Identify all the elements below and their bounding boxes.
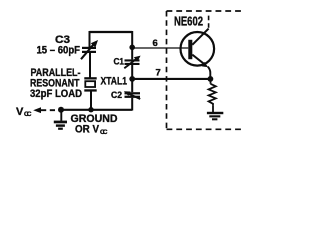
transistor Q1 circle xyxy=(181,32,215,66)
wire: ground rail horizontal xyxy=(59,109,132,111)
svg-text:V: V xyxy=(16,106,24,118)
resistor R1 zigzag xyxy=(209,84,216,106)
capacitor C1 plates (trimmer) xyxy=(125,59,140,65)
node: junction dot pin7 tap xyxy=(129,76,135,82)
ground symbol (under resistor) bars xyxy=(207,112,223,121)
crystal XTAL1 bottom electrode xyxy=(84,89,96,91)
transistor Q1 base bar xyxy=(188,40,192,59)
crystal XTAL1 top electrode xyxy=(84,77,96,79)
svg-text:C1: C1 xyxy=(114,57,125,68)
capacitor C3 plates (variable) xyxy=(82,47,96,53)
wire: dashed collector stub to box top xyxy=(208,15,210,28)
arrow: Vcc feed arrowhead xyxy=(33,107,41,113)
ground symbol (left) bars xyxy=(54,121,67,130)
svg-text:CC: CC xyxy=(24,111,32,118)
svg-text:CC: CC xyxy=(100,129,108,136)
wire: top horizontal between C3 branch and C1 branch xyxy=(90,31,133,33)
capacitor C2 trimmer arrow xyxy=(128,93,141,99)
wire: between C1 and C2 xyxy=(131,65,133,92)
wire: C2 bottom to ground rail corner xyxy=(131,98,133,111)
IC U1 NE602 dashed box left edge xyxy=(166,11,168,129)
capacitor C1 trimmer arrow xyxy=(124,59,136,69)
svg-text:XTAL1: XTAL1 xyxy=(101,76,128,88)
node: junction dot crystal/ground rail xyxy=(88,107,93,112)
svg-text:OR V: OR V xyxy=(75,123,100,135)
wire: crystal bottom stem to ground rail xyxy=(90,92,92,111)
IC U1 NE602 dashed box top edge xyxy=(167,10,242,12)
ground symbol (left) stem xyxy=(60,110,62,121)
node: emitter junction dot xyxy=(208,76,214,82)
wire: pin 7 emitter wire xyxy=(132,78,210,80)
wire: node to resistor top xyxy=(210,79,212,84)
crystal XTAL1 body xyxy=(85,81,95,87)
transistor Q1 emitter diagonal xyxy=(192,55,205,65)
capacitor C3 variable arrow xyxy=(81,43,95,59)
svg-text:7: 7 xyxy=(156,67,161,78)
svg-text:NE602: NE602 xyxy=(174,14,203,28)
wire: emitter down to pin7 node xyxy=(208,67,211,79)
svg-text:32pF LOAD: 32pF LOAD xyxy=(30,88,82,100)
node: junction dot pin6 tap xyxy=(129,45,135,51)
wire: left branch vertical from top wire down to C3 xyxy=(89,31,91,47)
wire: right branch vertical (C1/C2 string) xyxy=(131,31,133,59)
wire: C3 bottom to crystal top xyxy=(89,53,91,78)
capacitor C2 plates (trimmer) xyxy=(125,92,141,98)
wire: dashed Vcc feed xyxy=(41,109,58,111)
svg-text:C2: C2 xyxy=(111,90,122,101)
svg-text:15 – 60pF: 15 – 60pF xyxy=(37,44,81,56)
IC U1 NE602 dashed box bottom edge xyxy=(167,128,244,130)
wire: resistor bottom to ground xyxy=(212,105,214,112)
node: junction dot Vcc/ground rail xyxy=(58,107,64,113)
svg-text:6: 6 xyxy=(153,38,158,49)
transistor Q1 emitter arrowhead xyxy=(202,62,208,67)
transistor Q1 collector diagonal xyxy=(192,29,208,45)
wire: pin 6 base wire xyxy=(132,47,188,49)
